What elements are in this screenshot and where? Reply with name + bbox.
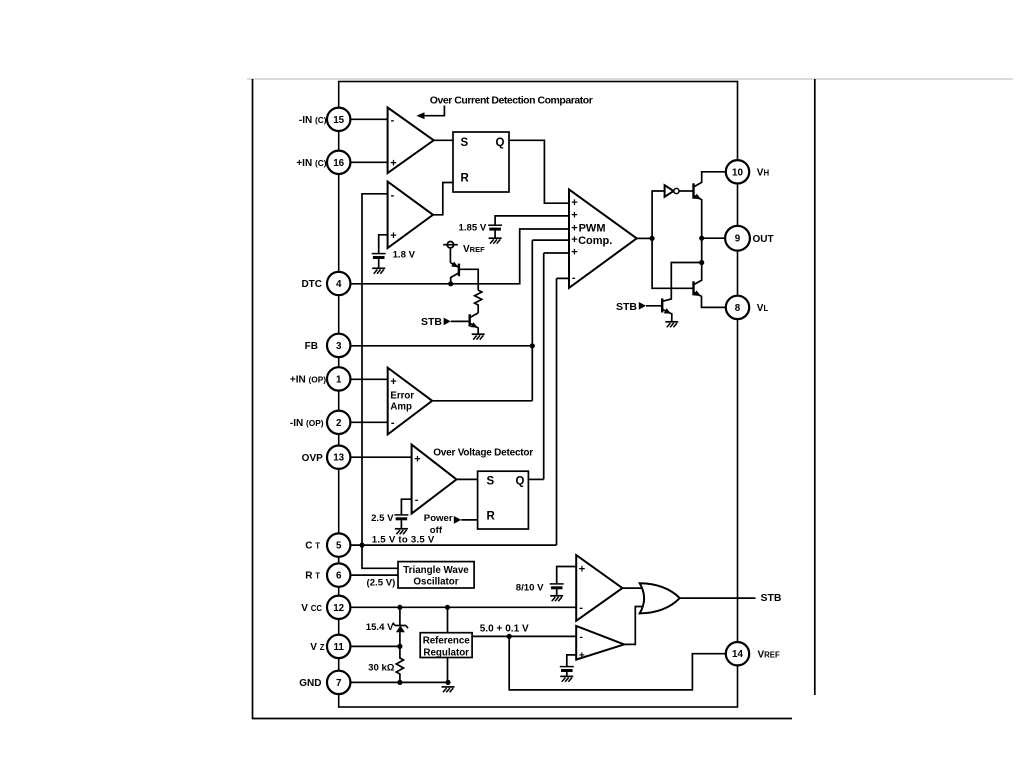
- table bottom border: [252, 718, 792, 720]
- table right border: [814, 79, 816, 695]
- svg-text:1: 1: [336, 374, 342, 385]
- svg-text:Error: Error: [390, 390, 414, 401]
- svg-text:VH: VH: [757, 168, 770, 179]
- wire STB output: [680, 597, 756, 599]
- transistor Q3 npn upper output: [692, 183, 694, 198]
- op-amp U6 error amp: [388, 368, 433, 435]
- svg-text:12: 12: [333, 603, 344, 614]
- svg-text:-: -: [391, 417, 395, 429]
- svg-text:30 kΩ: 30 kΩ: [368, 662, 395, 673]
- svg-text:VREF: VREF: [463, 244, 485, 255]
- svg-text:S: S: [461, 137, 469, 149]
- wire pin13 to OVP comparator: [351, 456, 412, 458]
- svg-text:Regulator: Regulator: [423, 648, 469, 659]
- pin 16: [327, 151, 350, 174]
- node GND junction regulator: [445, 680, 450, 685]
- node VCC junction zener: [397, 605, 402, 610]
- wire 1.85V to PWM comparator input 2: [495, 216, 569, 225]
- svg-text:+: +: [571, 234, 577, 246]
- svg-text:+: +: [414, 453, 420, 465]
- svg-text:15.4 V: 15.4 V: [366, 622, 394, 633]
- svg-text:+: +: [390, 230, 396, 242]
- svg-text:R: R: [461, 172, 470, 184]
- capacitor 1.8V reference: [372, 254, 386, 258]
- ground: [442, 687, 455, 692]
- svg-text:C T: C T: [305, 541, 320, 552]
- wire U7 minus to 2.5V cap: [401, 499, 411, 515]
- wire STB to Q4 base: [646, 305, 662, 307]
- wire U3 plus input to 1.8V cap: [379, 235, 388, 254]
- svg-text:Over Current Detection Compara: Over Current Detection Comparator: [430, 95, 593, 107]
- svg-text:+: +: [571, 197, 577, 209]
- svg-text:8/10 V: 8/10 V: [516, 582, 544, 593]
- svg-text:+IN (OP): +IN (OP): [290, 375, 326, 386]
- table left border: [252, 79, 254, 719]
- svg-text:R: R: [487, 511, 496, 523]
- pin 11: [327, 635, 350, 658]
- svg-text:3: 3: [336, 341, 342, 352]
- svg-text:1.85 V: 1.85 V: [459, 222, 487, 233]
- latch U8 SR box: [478, 471, 529, 529]
- ground: [560, 676, 573, 681]
- pin 14: [726, 642, 749, 665]
- wire down to lower stage: [701, 238, 703, 262]
- svg-text:-: -: [579, 602, 583, 614]
- wire pin11 VZ: [351, 645, 400, 647]
- wire regulator to GND line: [447, 658, 449, 683]
- capacitor 1.85V reference: [488, 225, 502, 229]
- wire STB to Q2 base: [451, 320, 470, 322]
- pin 2: [327, 411, 350, 434]
- table top border (light gray): [247, 78, 1013, 80]
- svg-text:Q: Q: [516, 475, 525, 487]
- transistor Q2 npn: [469, 314, 471, 326]
- callout arrow: [421, 106, 444, 116]
- op-amp U9 STB comparator 1: [576, 555, 622, 621]
- node OUT junction: [699, 236, 704, 241]
- svg-text:7: 7: [336, 678, 342, 689]
- svg-text:S: S: [487, 475, 495, 487]
- node junction lower: [699, 260, 704, 265]
- svg-text:-: -: [580, 632, 583, 643]
- svg-text:1.8 V: 1.8 V: [393, 250, 416, 261]
- svg-text:5: 5: [336, 541, 342, 552]
- svg-text:2.5 V: 2.5 V: [371, 513, 394, 524]
- op-amp U3 1.8V comparator: [388, 182, 433, 248]
- svg-text:5.0 + 0.1 V: 5.0 + 0.1 V: [480, 623, 529, 634]
- svg-text:+: +: [579, 651, 585, 662]
- capacitor 8/10V reference: [550, 584, 564, 588]
- svg-text:Power: Power: [424, 513, 453, 524]
- svg-text:-: -: [391, 115, 395, 127]
- svg-text:Reference: Reference: [423, 636, 471, 647]
- node GND junction resistor: [397, 680, 402, 685]
- svg-text:Q: Q: [496, 137, 505, 149]
- resistor R1: [475, 290, 482, 313]
- wire junction to Q4 collector: [662, 263, 701, 302]
- op-amp U7 over voltage comparator: [412, 445, 457, 514]
- wire CT to PWM comparator minus input: [557, 278, 570, 545]
- wire U9 output to OR gate: [622, 587, 642, 589]
- svg-text:-: -: [572, 272, 576, 284]
- svg-text:VREF: VREF: [758, 649, 781, 660]
- wire 8/10V cap to STB comparator 1 plus: [557, 567, 577, 584]
- wire pin6 RT to oscillator: [351, 574, 399, 576]
- svg-text:4: 4: [336, 279, 342, 290]
- wire OUT to pin 9: [702, 237, 726, 239]
- svg-text:STB: STB: [421, 316, 442, 328]
- gate OR: [640, 583, 680, 613]
- svg-text:+: +: [390, 158, 396, 170]
- wire pin1 to error amp: [351, 378, 388, 380]
- wire Q1 output to PWM comparator input 1: [509, 140, 569, 203]
- node 5.0V junction: [507, 634, 512, 639]
- svg-text:Oscillator: Oscillator: [413, 576, 458, 587]
- wire OVP latch Q to PWM comparator input 5: [544, 253, 569, 479]
- svg-text:14: 14: [732, 649, 743, 660]
- node DTC junction: [448, 281, 453, 286]
- wire comparator to S input: [434, 139, 453, 141]
- capacitor 2.5V reference: [394, 515, 408, 519]
- node VZ junction: [397, 644, 402, 649]
- svg-text:Over Voltage Detector: Over Voltage Detector: [433, 448, 533, 459]
- op-amp U4 PWM comparator: [569, 189, 637, 288]
- svg-text:OVP: OVP: [302, 453, 323, 464]
- pin 3: [327, 334, 350, 357]
- svg-text:10: 10: [732, 167, 743, 178]
- svg-text:Comp.: Comp.: [578, 235, 612, 247]
- wire CT line: [351, 544, 557, 546]
- svg-text:GND: GND: [299, 678, 321, 689]
- pin 10: [726, 160, 749, 183]
- svg-text:+: +: [571, 247, 577, 259]
- node FB junction: [530, 343, 535, 348]
- wire zener branch: [399, 607, 401, 646]
- svg-text:V CC: V CC: [301, 603, 322, 614]
- transistor Q5 npn lower output: [692, 281, 694, 295]
- wire VREF to Q1 emitter: [449, 248, 451, 263]
- wire U10 plus to cap: [567, 655, 576, 667]
- svg-text:STB: STB: [616, 301, 637, 313]
- wire pin16 to comparator: [351, 161, 388, 163]
- wire U3 minus input down to CT line: [362, 194, 388, 545]
- svg-text:13: 13: [333, 453, 344, 464]
- ground: [395, 529, 408, 534]
- diode D1 zener 15.4V: [393, 623, 408, 628]
- ground: [550, 596, 563, 601]
- op-amp U10 STB comparator 2: [576, 626, 624, 660]
- pin 9: [725, 226, 750, 251]
- ground: [472, 334, 485, 339]
- wire GND line: [351, 681, 449, 683]
- wire VCC line to STB comparator 1 minus: [351, 606, 577, 608]
- svg-text:15: 15: [333, 115, 344, 126]
- block triangle wave oscillator: [398, 562, 474, 588]
- block reference regulator: [420, 633, 472, 658]
- terminal VREF: [447, 242, 453, 248]
- svg-text:-: -: [415, 494, 419, 506]
- transistor Q1 pnp: [458, 264, 460, 277]
- pin 15: [327, 108, 350, 131]
- pin 7: [327, 671, 350, 694]
- svg-text:8: 8: [735, 303, 741, 314]
- svg-text:16: 16: [333, 158, 344, 169]
- svg-text:OUT: OUT: [753, 234, 774, 245]
- pin 12: [327, 596, 350, 619]
- wire regulator to VCC line: [447, 607, 449, 632]
- wire error amp output: [432, 400, 532, 402]
- svg-text:1.5 V to 3.5 V: 1.5 V to 3.5 V: [372, 534, 435, 545]
- wire 5.0V to pin 14 VREF: [509, 636, 726, 690]
- pin 4: [327, 272, 350, 295]
- pin 5: [327, 533, 350, 556]
- wire Q1 base network: [459, 269, 478, 290]
- node CT junction: [359, 543, 364, 548]
- svg-text:11: 11: [334, 642, 345, 653]
- svg-text:-: -: [391, 189, 395, 201]
- svg-text:Amp: Amp: [390, 402, 412, 413]
- svg-text:-IN (OP): -IN (OP): [290, 418, 324, 429]
- IC package outline: [339, 82, 738, 708]
- svg-text:PWM: PWM: [579, 222, 606, 234]
- wire to inverter: [652, 191, 665, 238]
- wire to lower transistor base: [652, 238, 693, 288]
- wire inverter to Q3 base: [679, 190, 694, 192]
- wire U7 output to S input: [457, 478, 478, 480]
- wire junction to Q5 collector: [694, 263, 702, 285]
- ground: [665, 322, 678, 327]
- wire DTC to PWM comparator input 3: [351, 229, 570, 284]
- wire 5.0V line to STB comparator 2 minus: [472, 635, 576, 637]
- wire PWM comparator output: [637, 237, 652, 239]
- wire U10 output to OR gate: [624, 607, 642, 645]
- svg-text:VL: VL: [757, 303, 769, 314]
- svg-text:+: +: [571, 223, 577, 235]
- wire pin2 to error amp: [351, 421, 388, 423]
- pin 13: [327, 446, 350, 469]
- svg-text:6: 6: [336, 571, 342, 582]
- wire comparator U3 output to R input: [433, 183, 453, 215]
- svg-text:+IN (C): +IN (C): [296, 158, 326, 169]
- pin 6: [327, 563, 350, 586]
- svg-text:-IN (C): -IN (C): [299, 115, 327, 126]
- latch U2 SR box: [453, 132, 509, 192]
- wire CT to oscillator: [362, 545, 398, 568]
- power off arrow to R input: [454, 516, 462, 524]
- svg-text:2: 2: [336, 418, 342, 429]
- node output junction: [650, 236, 655, 241]
- svg-text:DTC: DTC: [301, 279, 322, 290]
- svg-text:Triangle Wave: Triangle Wave: [403, 565, 469, 576]
- svg-text:V Z: V Z: [310, 642, 324, 653]
- wire U8 Q output up to PWM comparator: [528, 478, 543, 480]
- svg-text:FB: FB: [305, 341, 318, 352]
- inverter U5: [665, 185, 674, 197]
- svg-text:9: 9: [735, 234, 741, 245]
- svg-text:R T: R T: [305, 571, 320, 582]
- transistor Q4 npn standby: [661, 298, 663, 312]
- svg-text:+: +: [390, 376, 396, 388]
- ground: [489, 238, 502, 243]
- svg-text:STB: STB: [761, 592, 782, 604]
- wire pin15 to comparator: [351, 118, 388, 120]
- capacitor reference at U10: [560, 667, 574, 671]
- op-amp U1 over current comparator: [388, 108, 434, 174]
- svg-text:+: +: [579, 564, 585, 576]
- svg-text:(2.5 V): (2.5 V): [367, 577, 396, 588]
- svg-text:+: +: [571, 209, 577, 221]
- wire FB to PWM comparator input 4: [351, 240, 570, 401]
- resistor R2 30k: [396, 646, 403, 682]
- pin 1: [327, 367, 350, 390]
- ground: [372, 268, 385, 273]
- node VCC junction regulator: [445, 605, 450, 610]
- pin 8: [726, 296, 749, 319]
